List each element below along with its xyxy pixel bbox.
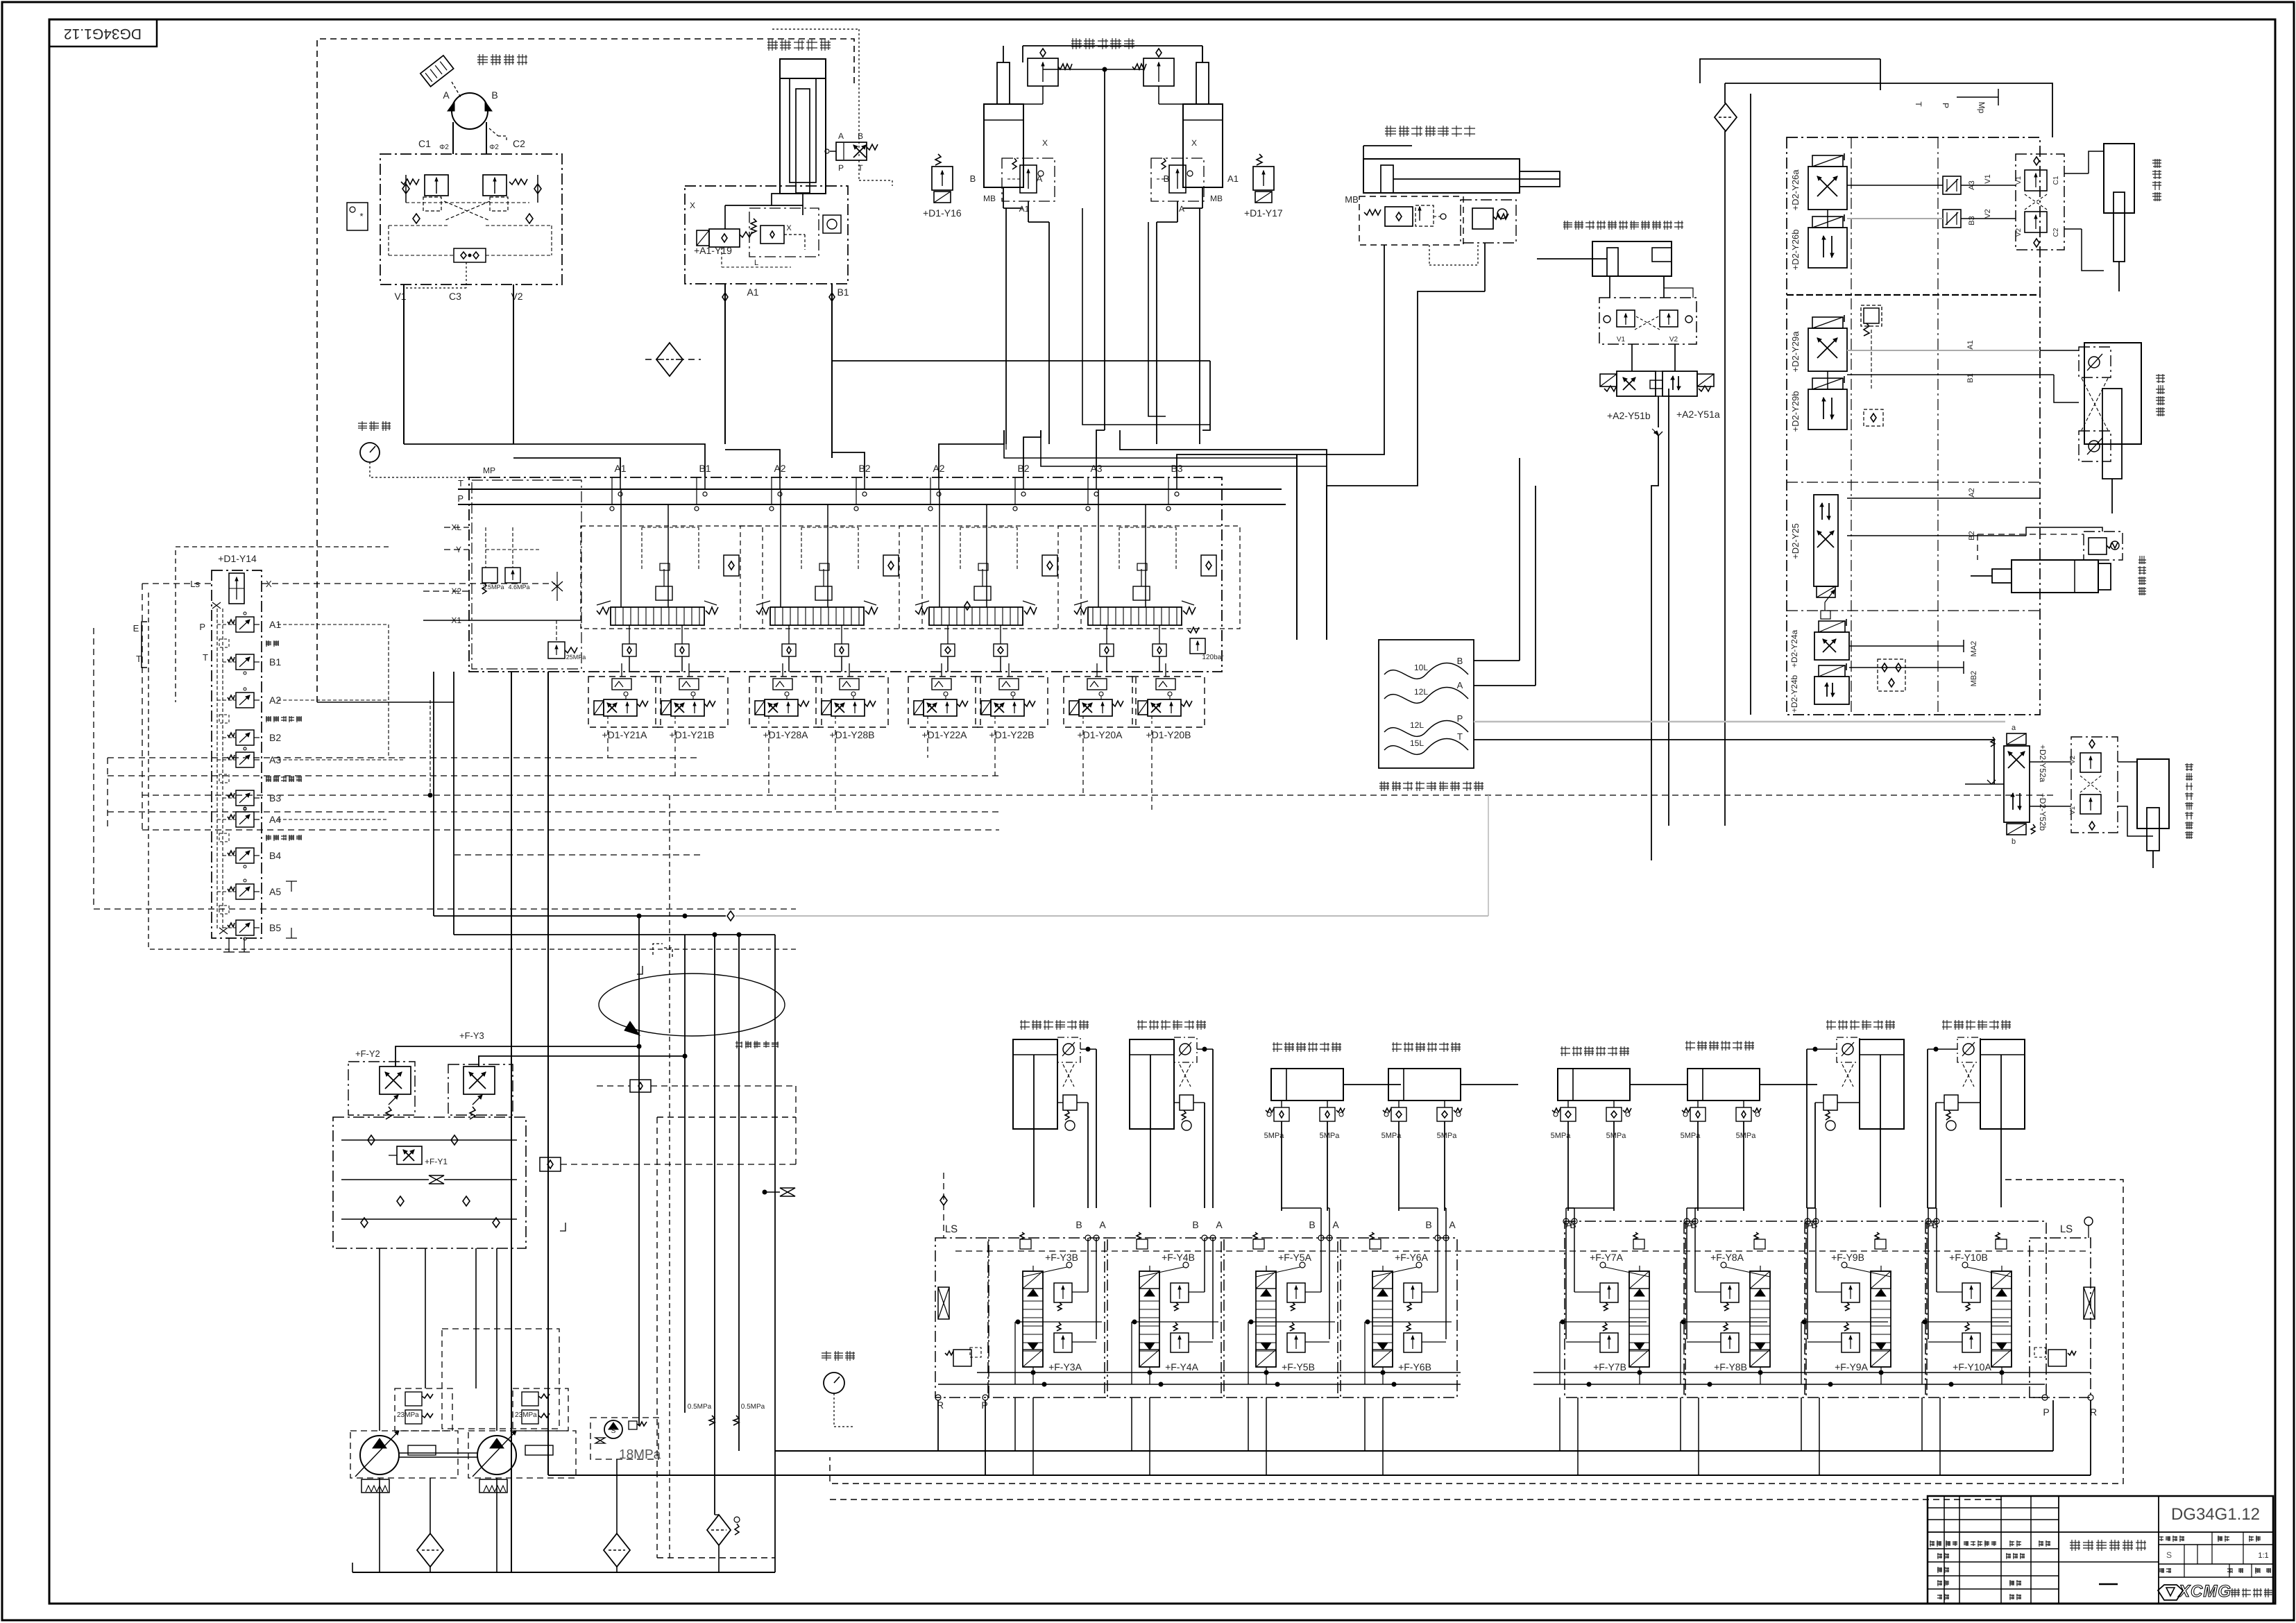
- module port risers: [1437, 1238, 1438, 1292]
- valve D2-Y52 pair: [2004, 746, 2030, 822]
- pilot module +D1-Y22A: [908, 677, 980, 727]
- vertical outrigger cylinder: [1980, 1039, 2025, 1129]
- MP section relief 4.6MPa: [505, 568, 520, 583]
- svg-text:B4: B4: [269, 850, 281, 861]
- svg-text:B: B: [491, 90, 498, 101]
- label 曲臂云梯扶伸缩油: [2185, 763, 2193, 839]
- throttle mark: [1654, 432, 1663, 436]
- wires flip valve: [1631, 344, 1633, 371]
- module internal tie wires: [1681, 1321, 1767, 1323]
- telescopic cylinder boom1: [780, 59, 826, 78]
- horizontal tie wires mid: [317, 702, 454, 703]
- svg-text:18MPa: 18MPa: [619, 1447, 661, 1462]
- svg-text:MB2: MB2: [1970, 671, 1978, 687]
- outrigger valve module +F-Y8A/+F-Y8B: [1685, 1221, 1805, 1397]
- shuttle valve: [454, 248, 486, 262]
- wire motor ports: [452, 122, 454, 154]
- label 一号臂伸缩: [767, 40, 831, 51]
- stack output dashed wires to pilot modules: [278, 624, 389, 625]
- relief 120bar right end: [1190, 638, 1205, 654]
- module spool: [1871, 1271, 1891, 1367]
- line filter top: [1715, 103, 1737, 131]
- svg-text:C3: C3: [449, 291, 461, 302]
- svg-text:V2: V2: [2069, 755, 2077, 764]
- svg-text:5MPa: 5MPa: [1320, 1132, 1341, 1140]
- module internal tie wires: [1801, 1321, 1888, 1323]
- svg-text:+D1-Y22B: +D1-Y22B: [989, 729, 1035, 740]
- svg-text:+D1-Y28A: +D1-Y28A: [763, 729, 809, 740]
- pilot check box: [1957, 1037, 1980, 1062]
- svg-text:P: P: [1457, 713, 1463, 724]
- ladder rail telescope cylinder: [2137, 759, 2169, 829]
- balance valve: [1944, 1095, 1958, 1110]
- wire V2 down to main valve: [513, 284, 514, 444]
- motor valve manifold box: [380, 154, 562, 284]
- svg-text:4.6MPa: 4.6MPa: [508, 584, 529, 590]
- MP orifice filter: [552, 581, 557, 591]
- D2 internal partition lines: [1851, 137, 1852, 715]
- section LS shuttle: [1042, 555, 1057, 576]
- section work-port checks: [1100, 644, 1114, 656]
- svg-text:+F-Y3B: +F-Y3B: [1045, 1252, 1078, 1263]
- wires Y26 to throttles: [1847, 185, 1943, 186]
- relief cluster pump1 23MPa: [395, 1388, 452, 1431]
- svg-text:A: A: [443, 90, 450, 101]
- svg-text:MP: MP: [483, 466, 495, 475]
- platform swing counterbalance box: [2016, 154, 2064, 250]
- svg-text:+D1-Y16: +D1-Y16: [923, 207, 962, 219]
- svg-text:T: T: [1914, 101, 1923, 107]
- module port risers: [1087, 1238, 1089, 1292]
- module rail relief component: [1996, 1239, 2007, 1249]
- balance valve: [1823, 1095, 1837, 1110]
- main valve section dashed boundary: [581, 526, 763, 629]
- stack section pairs: [236, 617, 254, 632]
- section LS shuttle: [883, 555, 899, 576]
- check small upper: [630, 1080, 651, 1092]
- module port risers: [1320, 1238, 1322, 1292]
- module relief B: [1600, 1283, 1618, 1302]
- XCMG logo: [2158, 1585, 2183, 1600]
- counterbalance valve right: [483, 175, 507, 196]
- check diamonds row3: [361, 1218, 368, 1227]
- wires down from cylinder valves: [1807, 1048, 1837, 1050]
- svg-text:+F-Y8B: +F-Y8B: [1714, 1361, 1747, 1373]
- svg-text:120bar: 120bar: [1202, 654, 1224, 661]
- pressure gauge upper 压力表: [358, 421, 391, 431]
- module internal tie wires: [1132, 1321, 1218, 1323]
- module internal tie wires: [1248, 1321, 1335, 1323]
- outrigger big dashed enclosure: [830, 1180, 2123, 1484]
- main valve section dashed boundary: [899, 526, 1081, 629]
- module relief A: [1962, 1333, 1980, 1352]
- throttle A3: [1943, 176, 1961, 194]
- relief cluster pump2 23MPa: [513, 1388, 568, 1431]
- svg-text:A1: A1: [1966, 340, 1975, 349]
- cross pilot lines: [444, 201, 490, 221]
- label 二号臂云梯扶手翻转油缸: [1563, 221, 1683, 230]
- outrigger valve module +F-Y10B/+F-Y10A: [1927, 1221, 2046, 1397]
- svg-text:B2: B2: [269, 732, 281, 743]
- svg-text:V1: V1: [394, 291, 406, 302]
- wires down from cylinder valves: [1928, 1048, 1957, 1050]
- svg-text:15L: 15L: [1410, 738, 1424, 748]
- svg-text:0.5MPa: 0.5MPa: [688, 1403, 712, 1411]
- filters and tank: [417, 1533, 443, 1567]
- label 一号臂变幅: [1071, 38, 1134, 49]
- label 二号臂变幅油缸: [1385, 126, 1475, 137]
- svg-text:P: P: [838, 163, 844, 173]
- makeup check right: [526, 214, 533, 223]
- module rail relief component: [1020, 1239, 1031, 1249]
- wires down: [1281, 1121, 1282, 1211]
- shuttle check mid: [964, 602, 970, 610]
- svg-text:A: A: [1332, 1219, 1339, 1230]
- relief valve Y29 section: [1861, 305, 1882, 326]
- svg-text:*: *: [359, 211, 363, 221]
- tank line: [352, 1572, 775, 1573]
- pilot check box: [1057, 1037, 1080, 1062]
- MP section box: [472, 480, 581, 669]
- horizontal outrigger cylinder: [1271, 1069, 1343, 1101]
- hose block wires left: [1326, 486, 1327, 640]
- wires down from cylinder valves: [1197, 1048, 1213, 1050]
- svg-text:B: B: [1457, 656, 1463, 666]
- svg-text:A: A: [1099, 1219, 1106, 1230]
- svg-text:+D1-Y20B: +D1-Y20B: [1146, 729, 1191, 740]
- module spool: [1256, 1271, 1276, 1367]
- label 调平油缸: [2138, 556, 2146, 595]
- cross pilot dashes: [1180, 1064, 1191, 1087]
- hose 12L line P: [1384, 721, 1468, 737]
- svg-text:23MPa: 23MPa: [515, 1411, 537, 1419]
- svg-text:Mp: Mp: [1977, 102, 1987, 114]
- section pilot cap: [974, 586, 991, 600]
- dashed pilot drops from modules: [607, 730, 609, 758]
- svg-text:+D1-Y22A: +D1-Y22A: [922, 729, 968, 740]
- lock valve pair left: [1690, 1107, 1706, 1121]
- lock valve pair right: [1320, 1107, 1335, 1121]
- balance valve: [1180, 1095, 1193, 1110]
- check valves in manifold row1: [368, 1135, 375, 1145]
- MP section relief 3.5MPa: [482, 568, 498, 583]
- balance valve: [1063, 1095, 1077, 1110]
- horizontal outrigger cylinder: [1558, 1069, 1630, 1101]
- stack top reducing valve: [229, 573, 244, 604]
- module rail relief component: [1875, 1239, 1886, 1249]
- filter inlet main valve: [656, 343, 683, 376]
- svg-text:B3: B3: [1968, 216, 1976, 225]
- svg-text:25MPa: 25MPa: [566, 654, 586, 661]
- svg-text:S: S: [2166, 1550, 2172, 1560]
- outrigger valve module +F-Y4B/+F-Y4A: [1105, 1238, 1224, 1397]
- pilot lines inside MP: [485, 527, 486, 568]
- svg-text:A2: A2: [1968, 488, 1976, 497]
- svg-text:X: X: [690, 201, 695, 210]
- module rail relief component: [1754, 1239, 1765, 1249]
- center trunk verticals: [511, 672, 512, 1572]
- module relief B: [1287, 1283, 1305, 1302]
- makeup check left: [413, 214, 420, 223]
- module relief B: [1842, 1283, 1860, 1302]
- main valve section compensator spool: [611, 607, 704, 625]
- svg-text:+D1-Y20A: +D1-Y20A: [1078, 729, 1123, 740]
- speed sensor on motor: [420, 56, 454, 87]
- hose 10L line B: [1384, 663, 1468, 679]
- wire top tie between cylinders: [1023, 45, 1202, 46]
- pump suction lines: [379, 1478, 380, 1572]
- svg-text:X: X: [1191, 138, 1197, 148]
- svg-text:0.5MPa: 0.5MPa: [741, 1403, 765, 1411]
- wires platform swing: [2064, 173, 2089, 174]
- lock valve pair left: [1391, 1107, 1406, 1121]
- svg-text:5MPa: 5MPa: [1606, 1132, 1627, 1140]
- bus wire y1347: [454, 934, 775, 935]
- boom2 luffing cylinder: [1363, 159, 1520, 193]
- section LS shuttle: [724, 555, 739, 576]
- module drop wires to buses: [1014, 1397, 1016, 1451]
- svg-text:P: P: [2043, 1407, 2049, 1418]
- svg-text:T: T: [1457, 731, 1463, 742]
- phase dash: [2099, 1583, 2118, 1586]
- svg-text:B: B: [858, 131, 863, 141]
- module relief A: [1404, 1333, 1422, 1352]
- label 回转马达: [477, 54, 527, 65]
- svg-text:MB: MB: [983, 194, 996, 203]
- svg-text:V2: V2: [1984, 209, 1992, 218]
- svg-text:+F-Y10B: +F-Y10B: [1949, 1252, 1988, 1263]
- svg-text:+A2-Y51a: +A2-Y51a: [1676, 409, 1720, 420]
- svg-text:+F-Y7B: +F-Y7B: [1593, 1361, 1626, 1373]
- D2 valve +D2-Y29a: [1808, 328, 1847, 371]
- T rail: [458, 488, 1282, 490]
- svg-text:B1: B1: [837, 287, 849, 298]
- module rail relief component: [1253, 1239, 1264, 1249]
- vertical outrigger cylinder: [1130, 1039, 1174, 1129]
- outrigger valve module +F-Y7A/+F-Y7B: [1565, 1221, 1684, 1397]
- lock valve pair right: [1606, 1107, 1622, 1121]
- module port risers: [1815, 1221, 1817, 1292]
- counterbalance valve on cylinder: [1028, 58, 1058, 86]
- dashed pilot routing under modules: [108, 757, 701, 758]
- main valve section dashed boundary: [1058, 526, 1240, 629]
- MP relief 25MPa: [548, 642, 565, 658]
- bus wire y1320 with check: [434, 915, 726, 917]
- module relief B: [1404, 1283, 1422, 1302]
- wire C3 dotted: [466, 262, 467, 288]
- manual bypass valve: [836, 142, 867, 160]
- crank arm cylinder 曲臂油缸: [2084, 343, 2141, 444]
- svg-text:A: A: [1216, 1219, 1223, 1230]
- svg-text:A: A: [1179, 204, 1184, 214]
- svg-text:V1: V1: [1984, 174, 1992, 183]
- svg-text:MB: MB: [1345, 194, 1359, 205]
- aux pump block 18MPa: [590, 1418, 658, 1459]
- module internal tie wires: [1015, 1321, 1102, 1323]
- lock valve pair left: [1561, 1107, 1576, 1121]
- horizontal outrigger cylinder: [1388, 1069, 1461, 1101]
- svg-text:X: X: [1042, 138, 1048, 148]
- svg-text:+F-Y10A: +F-Y10A: [1953, 1361, 1991, 1373]
- svg-text:23MPa: 23MPa: [397, 1411, 419, 1419]
- counterbalance valve left: [425, 175, 448, 196]
- wires from luffing down-steps: [1005, 444, 1007, 450]
- svg-text:+D1-Y21B: +D1-Y21B: [670, 729, 715, 740]
- counterbalance valve block boom2: [1359, 196, 1463, 245]
- dual check Y24: [1878, 659, 1905, 691]
- svg-text:V2: V2: [2015, 228, 2023, 237]
- module relief A: [1287, 1333, 1305, 1352]
- svg-text:A: A: [838, 131, 844, 141]
- module port risers: [1204, 1238, 1205, 1292]
- hose 15L line T: [1384, 739, 1468, 755]
- svg-text:+D2-Y52b: +D2-Y52b: [2038, 793, 2048, 831]
- svg-text:B: B: [1192, 1219, 1198, 1230]
- module relief A: [1842, 1333, 1860, 1352]
- svg-text:T: T: [136, 654, 142, 664]
- wire connectors cylinders to modules: [1282, 1207, 1321, 1209]
- pilot module +D1-Y28A: [749, 677, 822, 727]
- wires inside manifold: [405, 175, 407, 203]
- svg-text:+F-Y4B: +F-Y4B: [1162, 1252, 1195, 1263]
- label 平台摆动: [2152, 159, 2161, 201]
- pilot module +D1-Y20B: [1132, 677, 1205, 727]
- svg-text:B5: B5: [269, 922, 281, 933]
- pilot module +D1-Y22B: [976, 677, 1048, 727]
- wires cylinder to counterbalance: [1609, 276, 1610, 298]
- pilot check box: [1837, 1037, 1860, 1062]
- dotted leader line: [772, 28, 859, 30]
- D2 valve +D2-Y26b: [1808, 228, 1847, 268]
- dual solenoid valve A2-Y51: [1617, 371, 1656, 396]
- svg-text:B: B: [1425, 1219, 1431, 1230]
- module rail relief component: [1137, 1239, 1148, 1249]
- D2 section Y25 proportional valve: [1814, 495, 1838, 586]
- svg-text:P: P: [199, 622, 205, 632]
- svg-text:LS: LS: [2060, 1223, 2073, 1235]
- wires leveling: [2040, 527, 2102, 532]
- section pilot cap: [815, 586, 832, 600]
- valve F-Y3: [448, 1064, 513, 1115]
- stack enclosure: [212, 570, 262, 938]
- main pump 2: [468, 1431, 576, 1478]
- pilot module +D1-Y28B: [816, 677, 888, 727]
- svg-text:B: B: [1164, 173, 1170, 184]
- top-left drawing number box DG34G1.12: [49, 19, 157, 46]
- svg-text:+D1-Y28B: +D1-Y28B: [830, 729, 875, 740]
- svg-text:+D1-Y14: +D1-Y14: [218, 553, 257, 564]
- cross pilot dashes: [1963, 1064, 1974, 1087]
- module relief B: [1054, 1283, 1072, 1302]
- counterbalance valve on cylinder: [1143, 58, 1174, 86]
- svg-text:V2: V2: [1669, 336, 1678, 343]
- svg-text:S: S: [611, 1427, 616, 1435]
- horizontal outrigger cylinder: [1687, 1069, 1760, 1101]
- orifice check: [823, 215, 841, 233]
- svg-text:L: L: [754, 259, 758, 267]
- wires down: [1567, 1121, 1569, 1211]
- bracket symbol near swivel: [653, 944, 663, 955]
- module internal buses: [977, 1372, 1461, 1373]
- svg-text:+F-Y8A: +F-Y8A: [1710, 1252, 1744, 1263]
- svg-text:B: B: [1932, 1219, 1938, 1230]
- outrigger valve module +F-Y5A/+F-Y5B: [1221, 1238, 1341, 1397]
- pump shaft: [399, 1452, 477, 1454]
- hose block box: [1379, 640, 1474, 768]
- main pump 1: [350, 1431, 458, 1478]
- main valve section dashed boundary: [740, 526, 922, 629]
- svg-text:LS: LS: [945, 1223, 958, 1235]
- svg-text:+D2-Y26a: +D2-Y26a: [1790, 169, 1801, 211]
- svg-text:C2: C2: [513, 138, 525, 149]
- rotary motor M1: [452, 93, 488, 129]
- svg-text:+A2-Y51b: +A2-Y51b: [1607, 410, 1651, 421]
- reducing valve F-Y1: [397, 1146, 422, 1164]
- vertical outrigger cylinder: [1013, 1039, 1057, 1129]
- vertical outrigger cylinder: [1860, 1039, 1904, 1129]
- svg-text:Φ2: Φ2: [489, 144, 499, 151]
- module spool: [1991, 1271, 2012, 1367]
- title block grid: [1928, 1507, 2059, 1509]
- svg-text:+F-Y4A: +F-Y4A: [1165, 1361, 1199, 1373]
- wire balance valves tie: [1043, 69, 1144, 70]
- module internal tie wires: [1560, 1321, 1647, 1323]
- section pilot cap: [1133, 586, 1150, 600]
- svg-text:+F-Y6A: +F-Y6A: [1395, 1252, 1429, 1263]
- check valve Y29 section: [1864, 409, 1883, 426]
- main valve section compensator spool: [1088, 607, 1182, 625]
- svg-text:b: b: [2012, 838, 2016, 846]
- check diamonds row2: [397, 1196, 404, 1206]
- wire B1 down: [831, 284, 833, 458]
- staircase wires main valve to north: [404, 444, 705, 477]
- pilot module +D1-Y20A: [1064, 677, 1136, 727]
- svg-text:10L: 10L: [1414, 663, 1428, 672]
- D2 valve +D2-Y26a: [1808, 167, 1847, 210]
- D2 section Y24: [1814, 632, 1849, 660]
- svg-text:B: B: [1570, 1219, 1576, 1230]
- section LS shuttle: [1201, 555, 1216, 576]
- pilot operated check cartridge: [1002, 158, 1055, 201]
- anti-cavitation check right: [534, 184, 541, 194]
- pilot check box: [1174, 1037, 1197, 1062]
- pilot gear pump 1: [362, 1479, 389, 1493]
- svg-text:+F-Y9B: +F-Y9B: [1831, 1252, 1864, 1263]
- svg-text:P: P: [457, 493, 464, 504]
- counterbalance cartridge: [749, 208, 819, 257]
- D2 manifold trunk wires: [1724, 83, 1726, 103]
- valve F-Y2: [348, 1062, 415, 1115]
- wire cylinder to valve: [802, 208, 803, 215]
- valve block A1-Y19 box: [685, 186, 848, 284]
- title block outline: [1928, 1496, 2273, 1604]
- lock valve pair left: [1274, 1107, 1289, 1121]
- external check to swivel: [540, 1157, 561, 1171]
- section wires: [947, 625, 949, 644]
- feed wire to F-Y2: [396, 1046, 639, 1067]
- leveling cylinder: [2012, 560, 2098, 593]
- manual shutoff bowtie: [429, 1175, 444, 1184]
- section work-port checks: [941, 644, 955, 656]
- svg-text:B3: B3: [269, 792, 281, 804]
- svg-text:DG34G1.12: DG34G1.12: [64, 26, 142, 42]
- throttle on Y52 feed: [1987, 780, 1996, 784]
- svg-text:V1: V1: [1617, 336, 1626, 343]
- module relief A: [1721, 1333, 1739, 1352]
- outrigger valve module +F-Y6A/+F-Y6B: [1338, 1238, 1457, 1397]
- module internal tie wires: [1365, 1321, 1452, 1323]
- svg-text:T: T: [203, 652, 208, 663]
